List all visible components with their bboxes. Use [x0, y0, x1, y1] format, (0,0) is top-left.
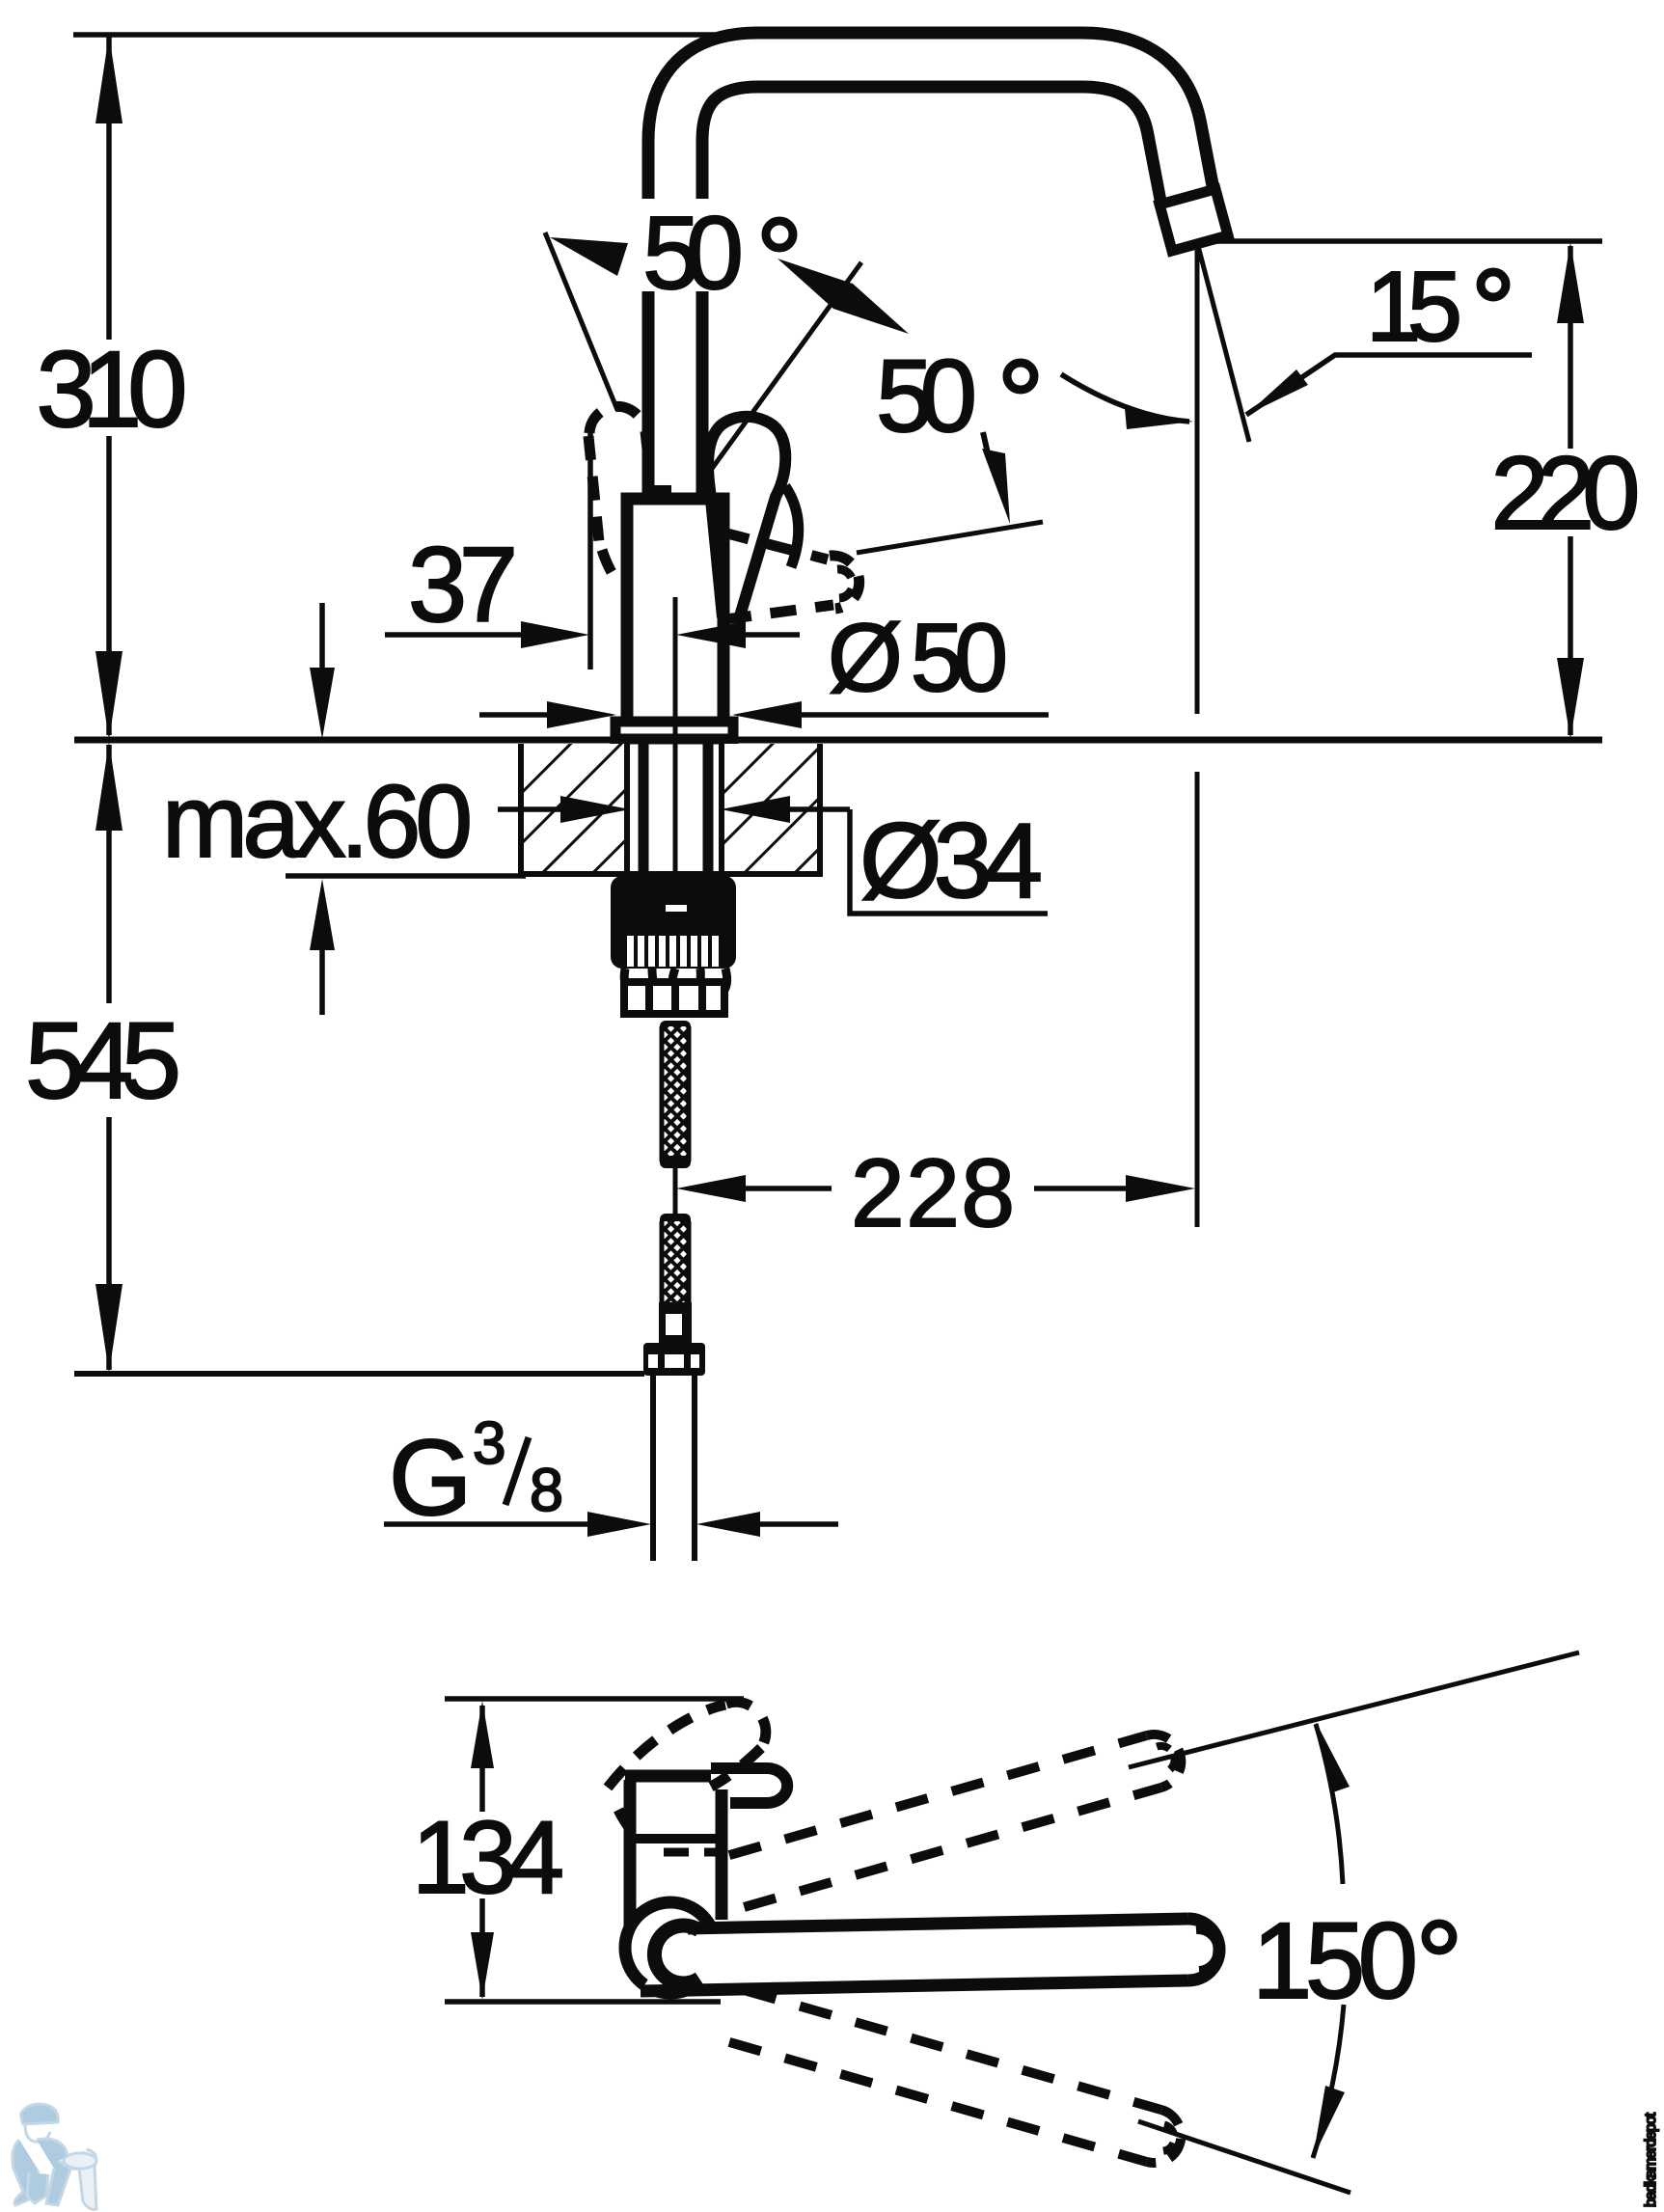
svg-text:max.60: max.60 — [162, 763, 473, 879]
svg-text:badkamerdepot: badkamerdepot — [1643, 2112, 1659, 2207]
svg-text:220: 220 — [1491, 434, 1641, 551]
svg-text:Ø34: Ø34 — [859, 802, 1043, 920]
svg-text:150: 150 — [1252, 1900, 1418, 2021]
svg-text:50: 50 — [876, 338, 977, 453]
svg-text:37: 37 — [408, 526, 518, 644]
svg-text:Ø 50: Ø 50 — [828, 604, 1008, 712]
svg-text:8: 8 — [530, 1457, 563, 1524]
svg-text:3: 3 — [473, 1410, 505, 1477]
svg-text:134: 134 — [412, 1799, 564, 1915]
svg-text:310: 310 — [37, 329, 188, 450]
svg-text:G: G — [389, 1418, 472, 1538]
svg-text:545: 545 — [25, 1000, 181, 1121]
svg-text:228: 228 — [851, 1139, 1015, 1247]
svg-text:50: 50 — [642, 194, 744, 311]
svg-text:15: 15 — [1366, 251, 1462, 362]
